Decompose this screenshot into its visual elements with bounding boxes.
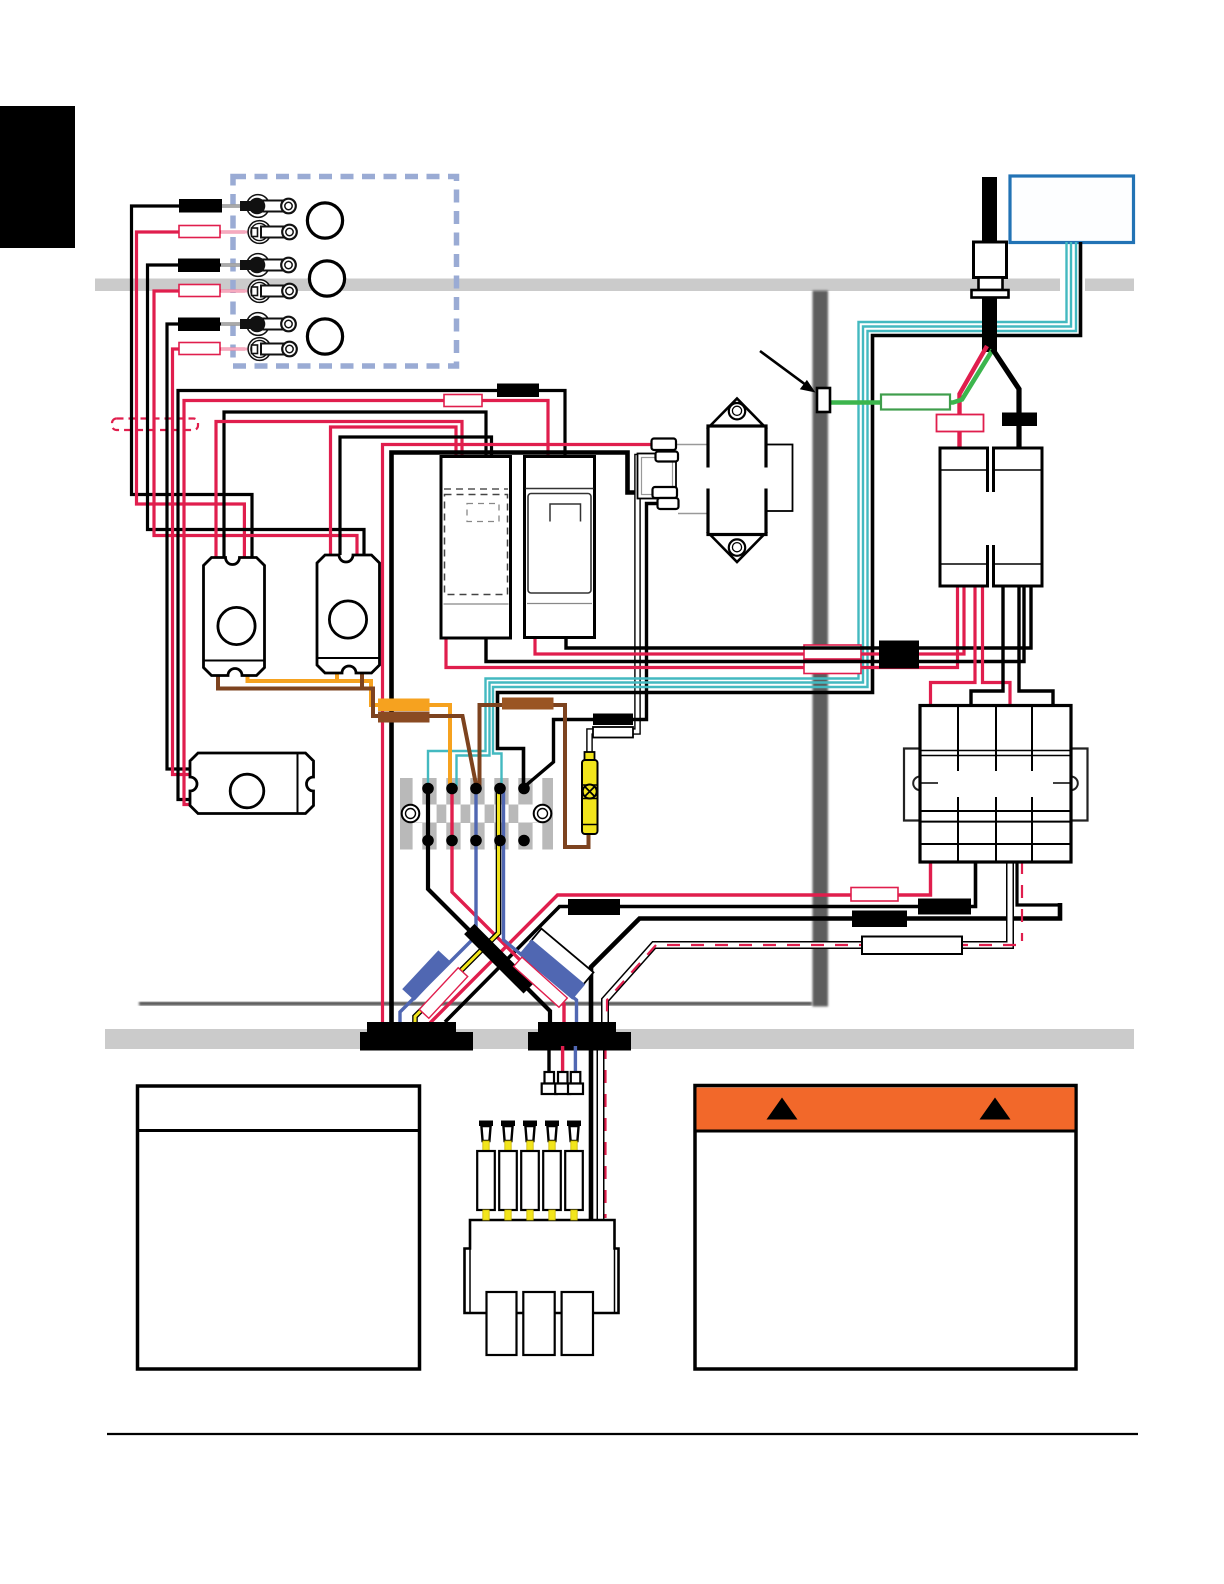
brown wire: terminal dot3 up over to inline fuse [480, 705, 589, 847]
black sleeve on harness black [852, 911, 907, 928]
red wire: terminal dot2 to grommet [452, 789, 564, 1023]
black lug bar on battery2 cable [1002, 413, 1037, 427]
main harness connector body [465, 1220, 619, 1355]
red sleeve on battery1 cable [937, 415, 984, 432]
orange stub from solenoid2 [335, 672, 339, 683]
white sleeve on sender wire [593, 727, 633, 738]
wire black: relay2 to solenoid3 lower [178, 391, 565, 800]
red wire: PTT relay bottom left, down-left to starboard grommet [430, 861, 931, 1023]
transom boundary bar bottom [105, 1029, 1134, 1049]
brown sleeve small [378, 712, 430, 723]
black sleeve on PTT black wire [918, 899, 971, 915]
warning triangle right [980, 1098, 1011, 1120]
neutral switch box on transom bar [817, 388, 830, 412]
brown stub from solenoid2 [360, 672, 364, 689]
grey wire tips at black lugs [221, 206, 242, 324]
bullet connector 1 [542, 1072, 557, 1094]
trim motor connector [638, 454, 677, 499]
green sleeve label [881, 395, 950, 410]
black sleeve on trim pin4 wire [593, 714, 633, 726]
battery lugs: eyelet type [248, 221, 297, 244]
battery lead pair3 red [173, 349, 246, 775]
bullet connector 2 [555, 1072, 570, 1094]
remote control box (bottom left) [138, 1086, 420, 1369]
fuse stack 1 [477, 1121, 583, 1221]
black sleeve on relay2 black feed [497, 384, 539, 398]
teal wire 3 (gauge) [493, 242, 1076, 786]
battery1 box [940, 448, 988, 586]
trim motor assembly [638, 399, 793, 563]
green wire branch to neutral-switch box [830, 350, 993, 403]
black wire: battery2 to PTT relay top [971, 586, 1003, 706]
solenoid1 body [204, 558, 265, 676]
rotated connector pair on dot4 blue wire (white+blue) [530, 929, 593, 986]
rotated connector pair on dot3 blue wire (blue+white/red) [402, 950, 451, 1000]
red wire: trim motor pin1 down to hull grommet [383, 445, 653, 1025]
wire red: relay2 to solenoid3 lower [184, 401, 548, 805]
white/red sleeve on relay2 red feed [444, 395, 482, 407]
battery lead pair2 black: lug to solenoid2 [148, 265, 365, 555]
battery lead pair2 red [154, 291, 357, 555]
battery lead pair1 red [137, 232, 246, 558]
black wire: terminal dot1 down-right to grommet [428, 789, 550, 1023]
black wire: relay1 out to battery2 [486, 586, 1024, 662]
red branch of battery cable to battery1 [960, 346, 988, 449]
teal wire 2 (gauge) [457, 242, 1072, 786]
brown wire: solenoid bottoms to terminal dot3 [218, 674, 477, 787]
dashed battery-leads box [233, 177, 457, 367]
footer rule [107, 1433, 1138, 1435]
inline fuse holder (yellow) [582, 752, 598, 834]
black branch of battery cable to battery2 [993, 349, 1020, 449]
battery lead pair1 black: lug to solenoid1 [132, 206, 253, 558]
harness leads below grommet [547, 1046, 550, 1073]
relay1 box [441, 457, 511, 639]
terminal block base [400, 778, 553, 850]
black wire: relay2 out to battery2 [566, 586, 1031, 648]
yellow wire: terminal dot4 down-left to port grommet [415, 789, 499, 1023]
battery2 box [994, 448, 1043, 586]
black wire: PTT relay bottom, down-left to grommet [445, 861, 976, 1022]
callout arrow to neutral switch [760, 351, 806, 385]
gauge/key-switch box (blue, top right) [1010, 176, 1134, 243]
black heavy wire: trim motor pin3 down to hull grommet [392, 453, 653, 1025]
rotated black sleeve on dot1 wire [464, 924, 534, 994]
battery lead pair3 black: lug to solenoid3 [167, 324, 243, 769]
brown sleeve large [502, 698, 554, 710]
battery lug sleeves (black) [179, 199, 222, 213]
wire red: solenoid1 to relay1 [216, 422, 462, 559]
red wire: relay2 out to battery1 [535, 586, 964, 654]
main battery cable (thick) [982, 177, 997, 352]
PTT relay block [904, 706, 1088, 863]
orange sleeve [378, 699, 430, 712]
red wire: relay1 out to battery1 [446, 586, 958, 668]
wing nut circles [307, 203, 342, 238]
wire red: solenoid2 to relay1 [331, 427, 457, 555]
black wire: battery2 to PTT relay top right [1019, 586, 1053, 706]
bullet connector 3 [568, 1072, 583, 1094]
warning triangle left [767, 1098, 798, 1120]
solenoid2 body [317, 555, 380, 673]
black heavy wire: PTT relay to main harness [591, 903, 1060, 1220]
starboard hull grommet [528, 1022, 631, 1051]
trim motor pin leads [676, 445, 709, 514]
page margin black block [0, 106, 75, 248]
hull line [139, 1002, 812, 1006]
white sleeve on sender harness wire [862, 937, 962, 955]
black wire of gauge bundle: to terminal dot5 [498, 242, 1081, 786]
black sleeve on battery feed pair [879, 641, 919, 669]
rotated white sleeve on dot2 red wire [514, 957, 568, 1007]
warning box (bottom right) [695, 1086, 1076, 1370]
blue wire: terminal dot4 down-right to grommet [504, 789, 577, 1046]
relay2 box [525, 457, 595, 638]
red wire: battery1 to PTT relay top mid [983, 586, 1011, 706]
red wire: battery1 to PTT relay top left [931, 586, 976, 706]
pink wire tips at red lugs [221, 232, 249, 349]
solenoid3 body (horizontal) [190, 753, 314, 814]
port hull grommet [360, 1022, 473, 1051]
teal wire 1 (gauge) [428, 242, 1067, 786]
transom vertical dark bar [813, 291, 829, 1007]
sleeve labels on battery feed pair (white/red) [804, 645, 861, 659]
wire black: solenoid1 to relay1 [224, 412, 486, 558]
engine-cowl boundary bar top [95, 279, 1060, 292]
terminal block screws and dots [402, 783, 552, 847]
black jog at PTT bottom [1017, 861, 1060, 905]
battery lugs: black type [240, 195, 297, 361]
orange wire: solenoid bottoms to terminal dot2 [248, 674, 451, 786]
battery lug sleeves (white/red) [179, 226, 220, 238]
black wire: trim pin4 to terminal block dot5 [524, 504, 658, 788]
white trim-sender harness wire with red tracer [601, 861, 1023, 1221]
wire black: solenoid2 to relay1 [340, 437, 492, 555]
dashed red pill (cut wire marker) [112, 419, 198, 431]
sleeve on PTT red wire [851, 888, 898, 902]
cable connector housing [974, 242, 1007, 278]
gap eraser between batteries [985, 492, 996, 545]
white sender wire: trim pin2 to inline fuse [590, 457, 657, 754]
blue wire: terminal dot3 down-left to port grommet [400, 789, 476, 1023]
